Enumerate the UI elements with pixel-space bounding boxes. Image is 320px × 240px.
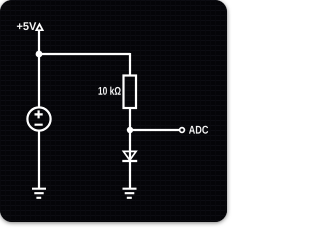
wire: node B down to diode D1 bbox=[129, 130, 131, 161]
value label 10 kOhm bbox=[99, 87, 121, 95]
voltage source V1 bbox=[27, 107, 50, 130]
+5V label bbox=[17, 22, 36, 30]
ADC terminal (open circle) bbox=[180, 128, 185, 133]
ground (left) bbox=[32, 189, 46, 198]
wire: diode D1 down to ground bbox=[129, 161, 131, 189]
wire: top wire corner down to resistor R1 bbox=[129, 53, 131, 76]
diode D1 bbox=[122, 151, 137, 161]
ground (right) bbox=[123, 189, 137, 198]
node A (junction dot) bbox=[36, 51, 43, 58]
ADC label bbox=[189, 126, 208, 134]
wire: junction A down to source V1 bbox=[38, 54, 40, 107]
wire: junction A right to resistor branch bbox=[39, 53, 130, 55]
+5V power symbol bbox=[36, 24, 42, 30]
wire: node B right to ADC terminal bbox=[130, 129, 179, 131]
resistor R1 bbox=[124, 76, 137, 109]
node B (junction dot) bbox=[127, 127, 133, 133]
grid background bbox=[0, 0, 227, 222]
wire: +5V down to junction A bbox=[38, 30, 40, 54]
wire: source V1 down to ground bbox=[38, 131, 40, 189]
wire: resistor R1 down to node B bbox=[129, 108, 131, 130]
